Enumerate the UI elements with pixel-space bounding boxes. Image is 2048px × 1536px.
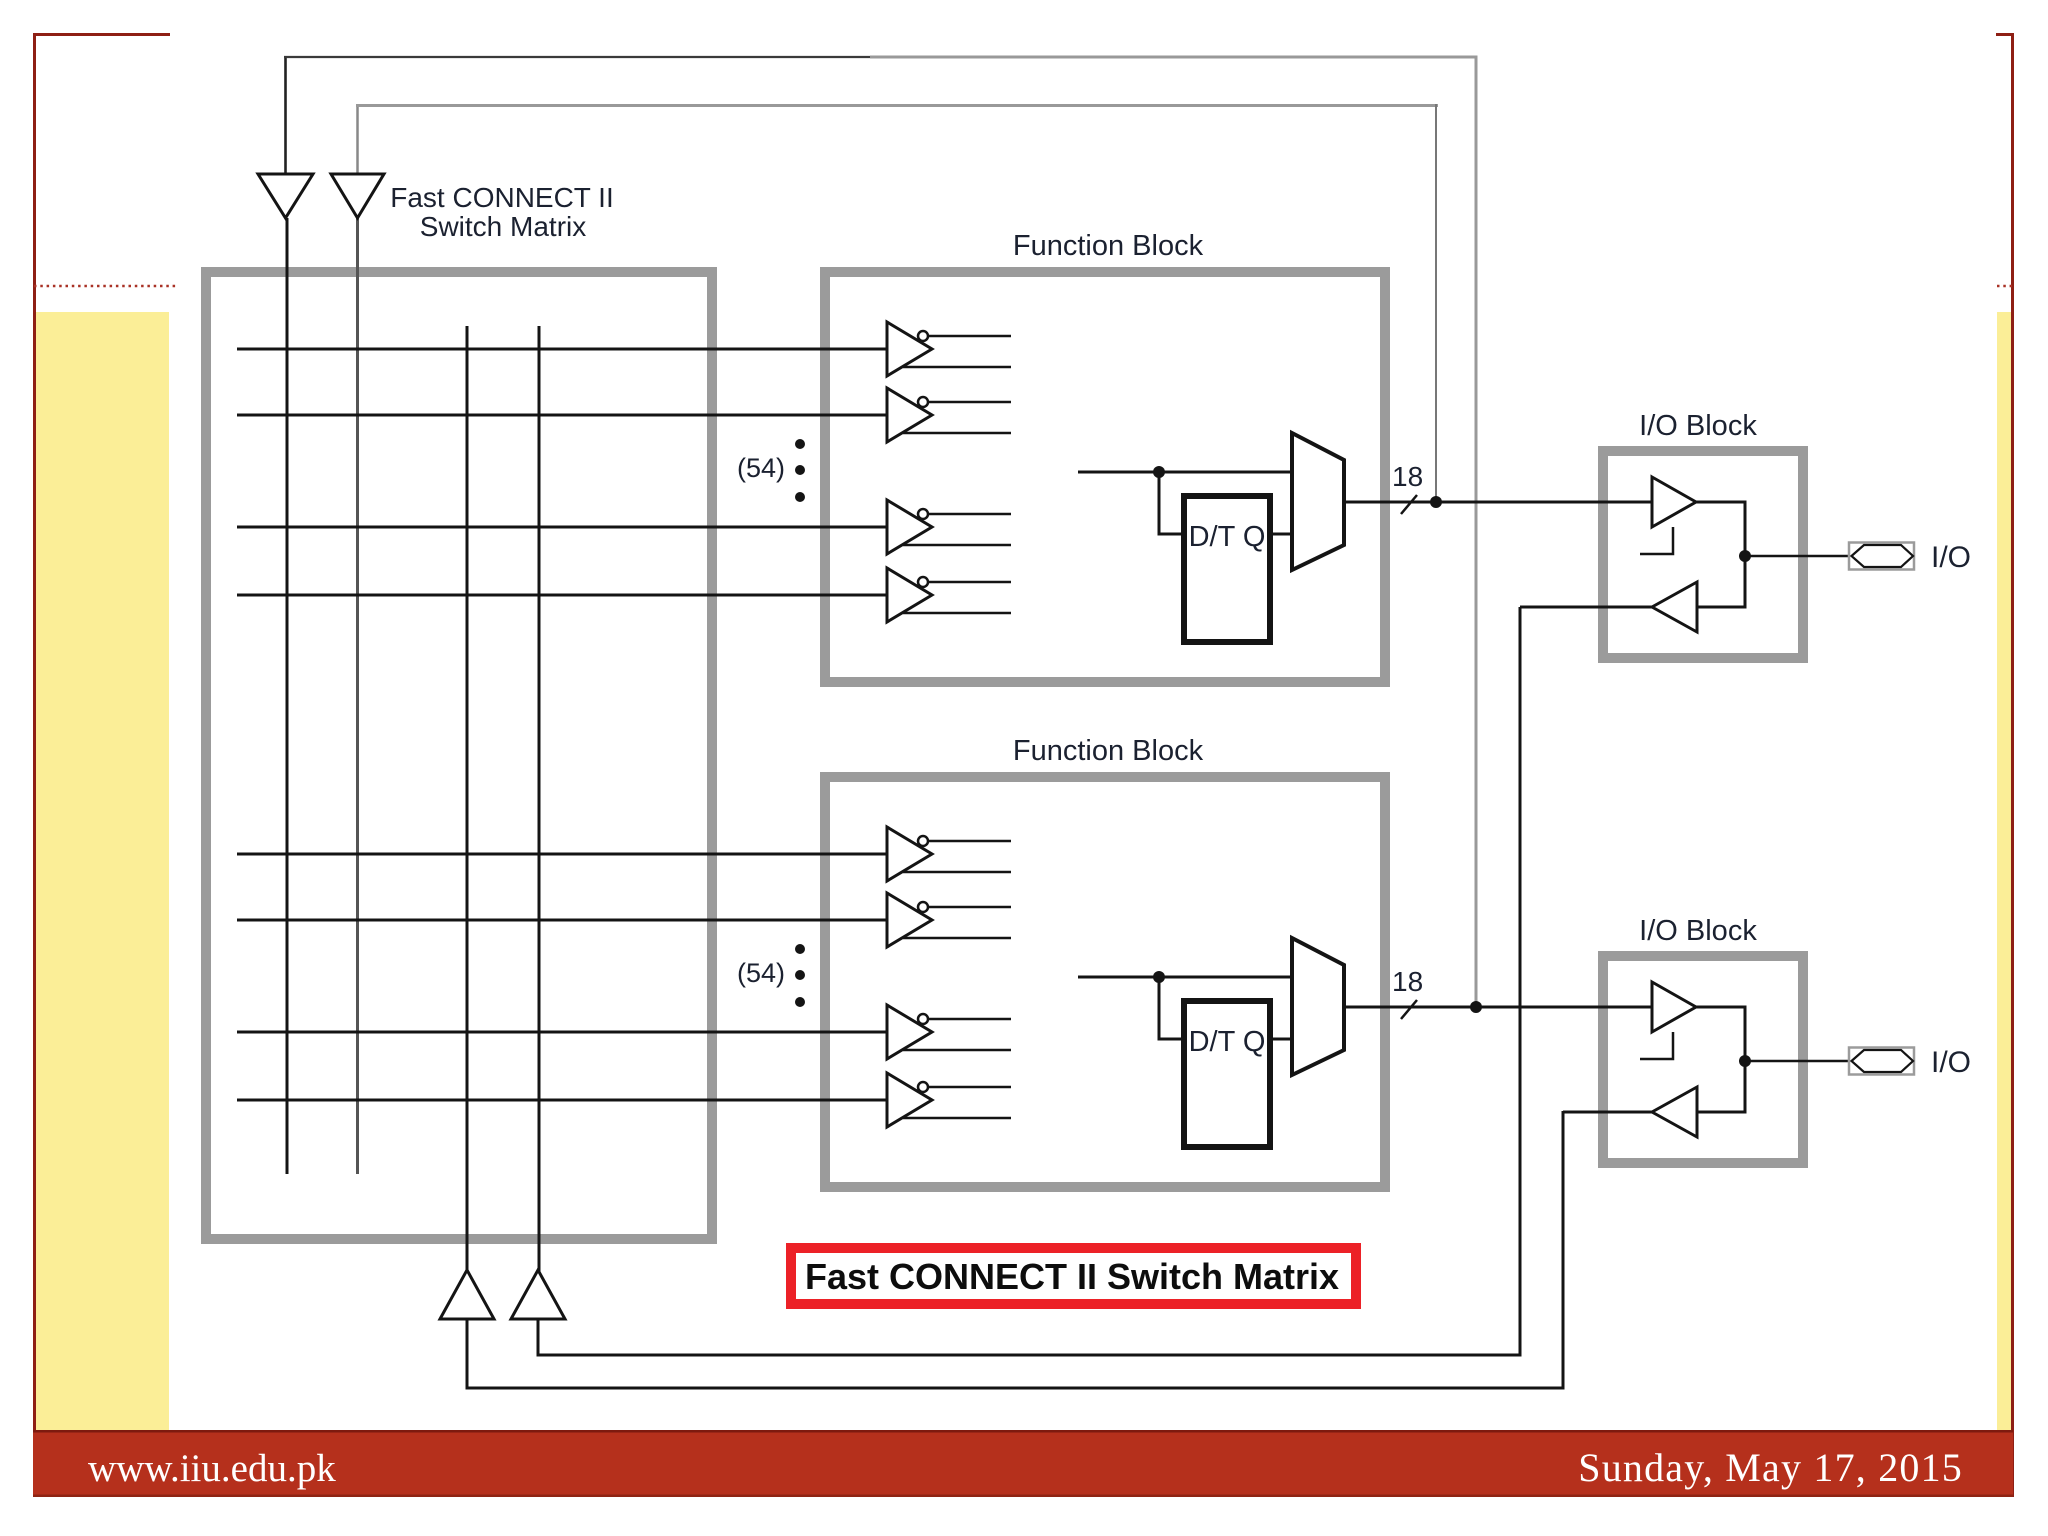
- svg-text:Fast CONNECT II: Fast CONNECT II: [390, 182, 614, 213]
- svg-text:Fast CONNECT II Switch Matrix: Fast CONNECT II Switch Matrix: [805, 1256, 1339, 1297]
- svg-text:I/O Block: I/O Block: [1639, 410, 1757, 442]
- svg-text:D/T Q: D/T Q: [1189, 521, 1266, 553]
- svg-text:I/O: I/O: [1931, 541, 1971, 574]
- svg-text:(54): (54): [737, 453, 785, 483]
- svg-text:Function Block: Function Block: [1013, 735, 1204, 767]
- svg-text:Sunday, May 17, 2015: Sunday, May 17, 2015: [1578, 1445, 1963, 1490]
- svg-text:Function Block: Function Block: [1013, 230, 1204, 262]
- svg-text:18: 18: [1392, 461, 1423, 492]
- svg-text:www.iiu.edu.pk: www.iiu.edu.pk: [88, 1447, 336, 1490]
- svg-text:Switch Matrix: Switch Matrix: [420, 211, 586, 242]
